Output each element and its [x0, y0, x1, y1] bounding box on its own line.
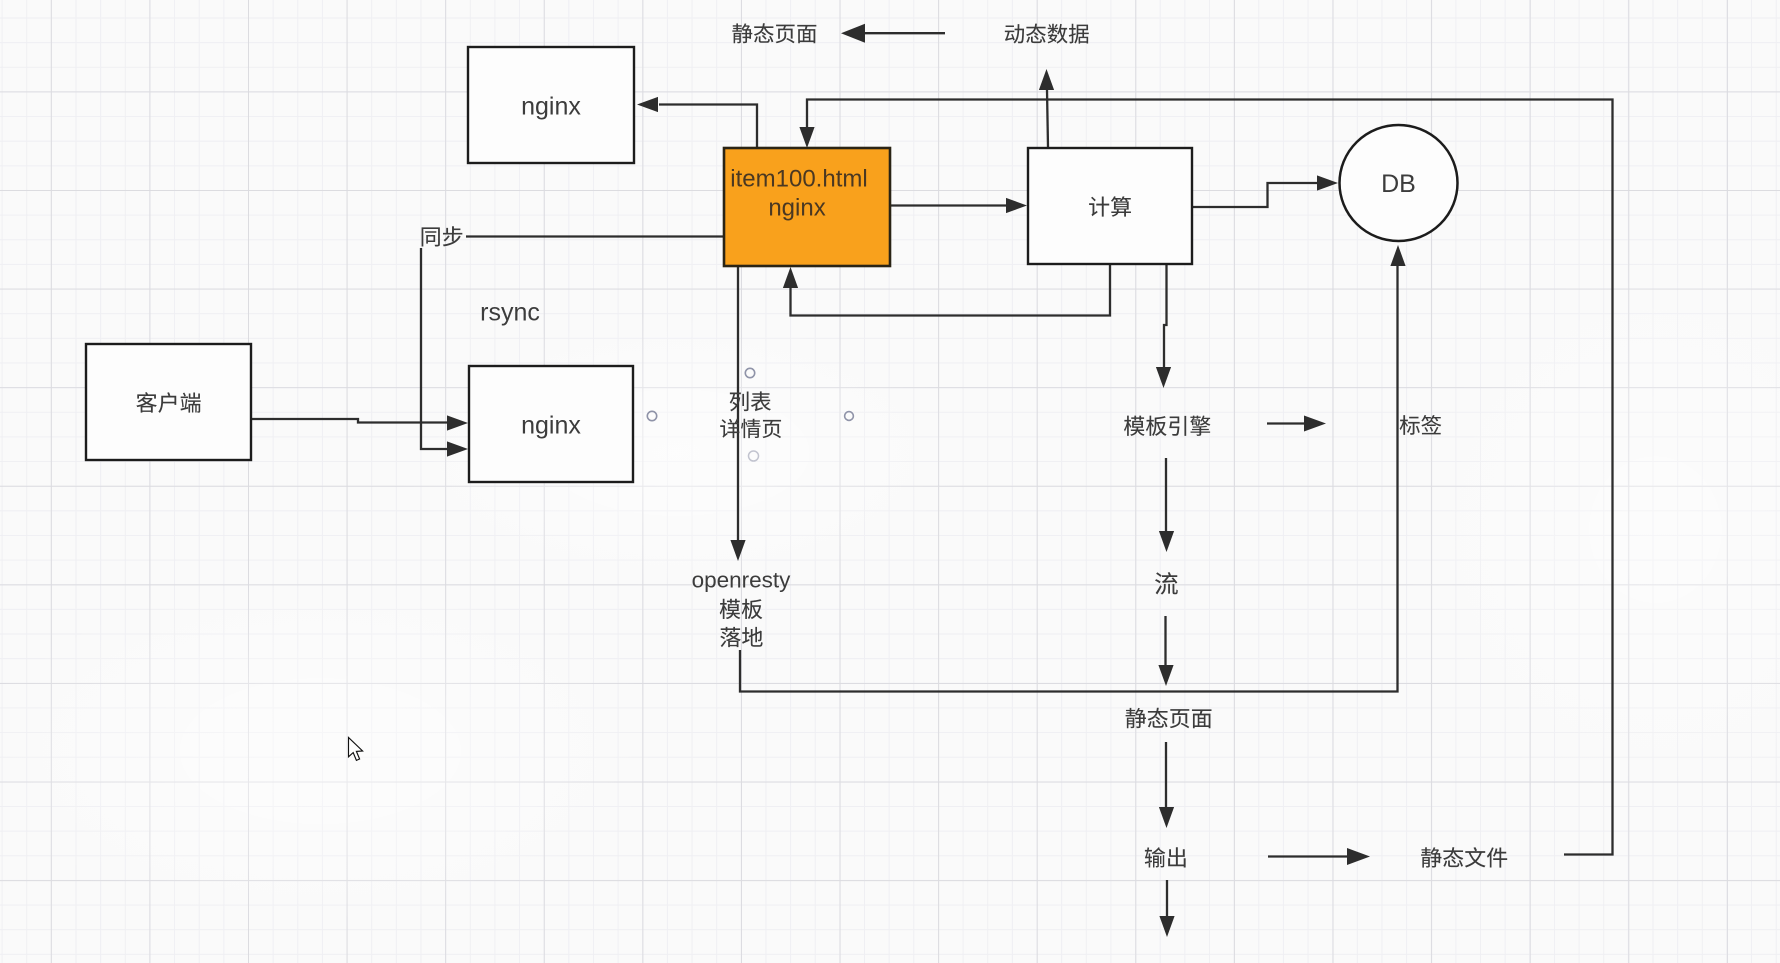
svg-text:nginx: nginx: [521, 412, 581, 440]
svg-text:DB: DB: [1381, 170, 1416, 198]
svg-text:nginx: nginx: [768, 195, 825, 222]
svg-text:item100.html: item100.html: [730, 166, 867, 193]
svg-text:nginx: nginx: [521, 93, 581, 121]
svg-text:openresty: openresty: [692, 568, 792, 593]
svg-text:rsync: rsync: [480, 299, 540, 327]
